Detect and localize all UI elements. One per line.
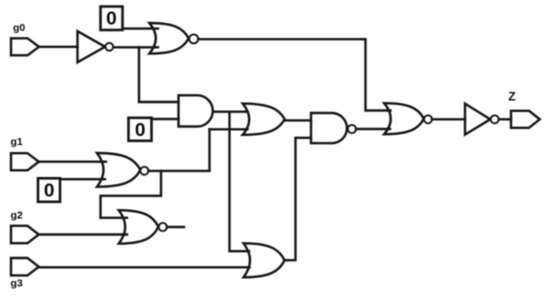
svg-text:Z: Z [508,89,515,103]
OR gate U4 [243,104,285,135]
input port g0 [11,38,39,55]
wire U8 output branch to NOR U9 top input [101,171,162,218]
AND gate U3 [179,95,213,126]
output port Z [511,111,540,128]
bubble U2 output [189,34,198,43]
wire B3 to NOR U8 bottom input [60,178,105,180]
wire U4 output to NAND U5 top input [285,119,311,121]
svg-text:g0: g0 [13,22,25,34]
bubble U5 output [348,125,356,133]
NOR gate U8 [97,153,140,187]
wire g1 to NOR U8 top input [39,160,106,162]
constant 0 box B1 [101,7,123,31]
wire U1 output to NOR U2 [113,46,158,48]
wire B1 to NOR U2 top input [123,27,159,29]
wire g3 to OR U10 bottom input [39,266,250,268]
svg-text:g1: g1 [11,136,23,148]
inverter U1 [78,31,106,62]
svg-text:0: 0 [135,120,146,140]
wire U2 output to NOR U6 top input [198,39,390,110]
wire U9 output stub [167,226,184,228]
OR gate U10 [244,243,285,277]
bubble U8 output [140,167,148,175]
wire g0 to inverter [39,46,78,48]
bubble U1 output [105,43,113,51]
wire g2 to NOR U9 bottom input [39,233,127,235]
bubble U6 output [424,115,432,123]
wire U3 output branch down to OR U10 top input [230,112,250,252]
constant 0 box B2 [129,118,152,141]
wire U4 bottom input from NOR U8 [210,128,248,130]
wire U5 output to NOR U6 bottom input [356,128,390,130]
wire U7 to output port Z [499,118,511,120]
wire branch down to AND U3 top input [139,47,179,102]
NAND gate U5 [311,113,347,143]
svg-text:g3: g3 [11,278,23,290]
wire U10 output up to NAND U5 bottom input [285,138,311,260]
constant 0 box B3 [38,178,60,202]
wire U3 output to OR U4 top input [213,110,248,112]
wire U6 output to inverter U7 [432,118,465,120]
input port g3 [11,258,39,275]
svg-text:g2: g2 [11,209,23,221]
NOR gate U2 [149,23,188,54]
svg-text:0: 0 [106,9,117,29]
wire U8 output right then up to OR U4 bottom input [148,129,209,171]
NOR gate U9 [119,210,159,243]
input port g2 [11,226,39,243]
NOR gate U6 [384,103,424,134]
inverter U7 [465,104,490,135]
svg-text:0: 0 [44,181,55,201]
input port g1 [11,153,39,170]
bubble U9 output [159,223,167,231]
bubble U7 output [491,115,499,123]
wire B2 to AND U3 bottom input [152,118,179,120]
